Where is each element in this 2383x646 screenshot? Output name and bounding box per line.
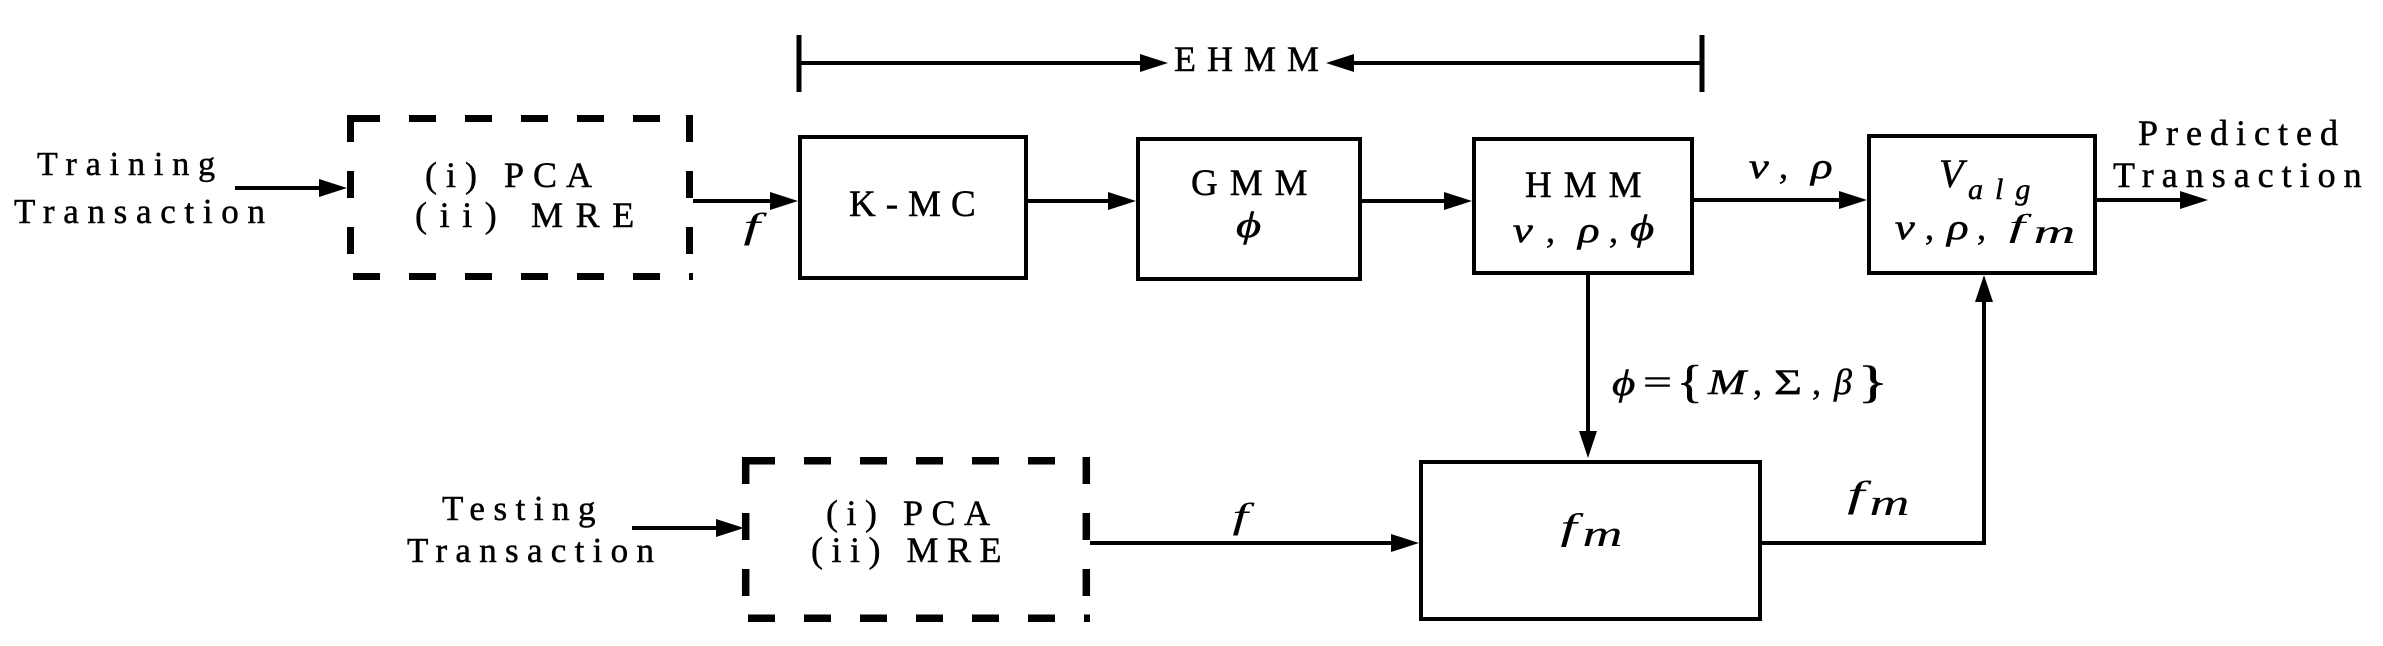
GMM box: [1138, 139, 1360, 279]
training input arrowhead: [319, 179, 347, 197]
wire HMM to Valg: [1694, 198, 1842, 202]
EHMM bracket left tick: [797, 35, 802, 92]
svg-text:,: ,: [1546, 210, 1555, 250]
dashed box PCA/MRE (testing): [742, 457, 1090, 622]
svg-text:Σ: Σ: [1774, 362, 1802, 402]
fm label in box: [1561, 506, 1585, 548]
wire HMM down to fm box: [1586, 275, 1590, 434]
wire K-MC to GMM: [1028, 199, 1111, 203]
wire f to K-MC: [693, 199, 773, 203]
svg-text:m: m: [1870, 483, 1910, 524]
svg-text:}: }: [1858, 356, 1888, 407]
Valg box: [1869, 136, 2095, 273]
svg-text:alg: alg: [1968, 173, 2042, 206]
output wire from Valg: [2097, 198, 2183, 202]
svg-text:β: β: [1833, 362, 1852, 402]
svg-text:(ii) MRE: (ii) MRE: [415, 195, 647, 235]
nu rho wire label: [1749, 146, 1833, 186]
svg-text:{: {: [1677, 356, 1703, 407]
svg-text:EHMM: EHMM: [1174, 39, 1330, 79]
svg-text:ϕ: ϕ: [1236, 206, 1261, 246]
f label (testing): [1233, 497, 1256, 537]
EHMM bracket right horizontal wire: [1352, 61, 1702, 65]
dashed box PCA/MRE (training): [347, 115, 693, 280]
svg-text:=: =: [1643, 362, 1672, 402]
svg-text:,: ,: [1977, 207, 1986, 247]
svg-text:(ii) MRE: (ii) MRE: [811, 530, 1010, 570]
arrowhead into Valg: [1839, 191, 1867, 209]
svg-text:Predicted: Predicted: [2138, 113, 2346, 153]
nu rho fm label in Valg: [1895, 207, 2076, 251]
phi = {M, Sigma, beta} label: [1612, 356, 1888, 407]
svg-text:,: ,: [1753, 362, 1762, 402]
arrowhead into HMM: [1444, 192, 1472, 210]
svg-text:Transaction: Transaction: [407, 531, 662, 570]
svg-text:ρ: ρ: [1576, 210, 1600, 250]
svg-text:,: ,: [1779, 146, 1788, 186]
svg-text:ρ: ρ: [1945, 207, 1969, 247]
svg-text:Transaction: Transaction: [2113, 155, 2370, 195]
EHMM bracket right tick: [1700, 35, 1705, 92]
svg-text:ρ: ρ: [1809, 146, 1833, 186]
svg-text:,: ,: [1812, 362, 1821, 402]
training input wire: [235, 186, 322, 190]
fm wire label: [1847, 474, 1871, 515]
testing input wire: [632, 526, 719, 530]
EHMM bracket left horizontal wire: [799, 61, 1142, 65]
svg-text:(i) PCA: (i) PCA: [425, 155, 601, 195]
fm box: [1421, 462, 1760, 619]
testing input arrowhead: [716, 519, 744, 537]
wire f to fm box: [1090, 541, 1394, 545]
svg-text:Training: Training: [37, 146, 224, 183]
svg-text:Transaction: Transaction: [14, 192, 274, 231]
arrowhead into fm box top: [1579, 431, 1597, 458]
svg-text:,: ,: [1925, 207, 1934, 247]
K-MC box: [800, 137, 1026, 278]
wire corner up to Valg: [1982, 300, 1986, 545]
nu rho phi label in HMM: [1513, 209, 1654, 250]
svg-text:M: M: [1707, 362, 1749, 402]
svg-text:K-MC: K-MC: [849, 184, 986, 225]
phi label in GMM: [1236, 206, 1261, 246]
svg-text:m: m: [2034, 214, 2076, 251]
svg-text:(i) PCA: (i) PCA: [826, 493, 999, 533]
svg-text:ν: ν: [1513, 210, 1534, 250]
svg-text:m: m: [1583, 514, 1623, 555]
svg-text:ν: ν: [1749, 146, 1770, 186]
arrowhead into GMM: [1108, 192, 1136, 210]
svg-text:ν: ν: [1895, 207, 1916, 247]
svg-text:ϕ: ϕ: [1630, 209, 1654, 249]
arrowhead into Valg bottom: [1975, 275, 1993, 302]
svg-text:,: ,: [1609, 210, 1618, 250]
EHMM left arrowhead: [1140, 54, 1168, 72]
arrowhead into K-MC: [770, 192, 798, 210]
arrowhead into fm box: [1391, 534, 1419, 552]
HMM box: [1474, 139, 1692, 273]
svg-text:GMM: GMM: [1191, 163, 1320, 204]
svg-text:ϕ: ϕ: [1612, 363, 1635, 403]
wire GMM to HMM: [1362, 199, 1447, 203]
svg-text:Testing: Testing: [442, 489, 604, 528]
EHMM right arrowhead: [1326, 54, 1354, 72]
svg-text:HMM: HMM: [1525, 165, 1654, 206]
wire fm box to corner: [1762, 541, 1986, 545]
f label (training): [744, 206, 768, 246]
output arrowhead: [2180, 191, 2208, 209]
